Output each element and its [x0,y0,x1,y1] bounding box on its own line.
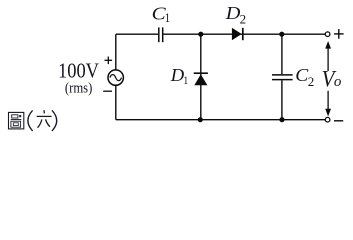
svg-text:o: o [334,74,342,90]
svg-text:1: 1 [183,73,188,87]
svg-text:(rms): (rms) [65,80,93,96]
svg-text:100V: 100V [58,59,100,83]
svg-text:1: 1 [165,10,171,25]
svg-text:C: C [295,65,308,85]
svg-text:2: 2 [308,74,315,89]
svg-text:2: 2 [240,11,247,26]
svg-text:D: D [170,65,185,85]
svg-text:D: D [225,3,241,23]
